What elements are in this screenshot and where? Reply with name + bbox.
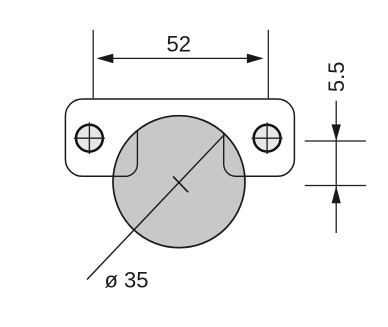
left arrow [97, 54, 114, 64]
5.5 dim vertical line [335, 101, 337, 233]
diameter leader line [87, 134, 225, 279]
svg-text:ø 35: ø 35 [105, 267, 149, 292]
svg-text:52: 52 [167, 32, 191, 57]
left notch step [110, 131, 137, 177]
5.5 top tick [305, 140, 366, 142]
52 dim: left extension line [92, 30, 94, 99]
left screw hole [74, 122, 105, 154]
hinge cup circle [113, 116, 245, 248]
up arrow [332, 186, 341, 204]
52 dim line [111, 57, 249, 59]
mounting plate [65, 99, 294, 176]
right arrow [247, 54, 264, 64]
5.5 bottom tick [305, 185, 366, 187]
right notch step [224, 133, 248, 176]
52 dim: right extension line [267, 30, 269, 99]
svg-text:5.5: 5.5 [324, 62, 349, 93]
down arrow [332, 124, 341, 140]
center X tick [173, 176, 188, 192]
right screw hole [252, 122, 283, 154]
